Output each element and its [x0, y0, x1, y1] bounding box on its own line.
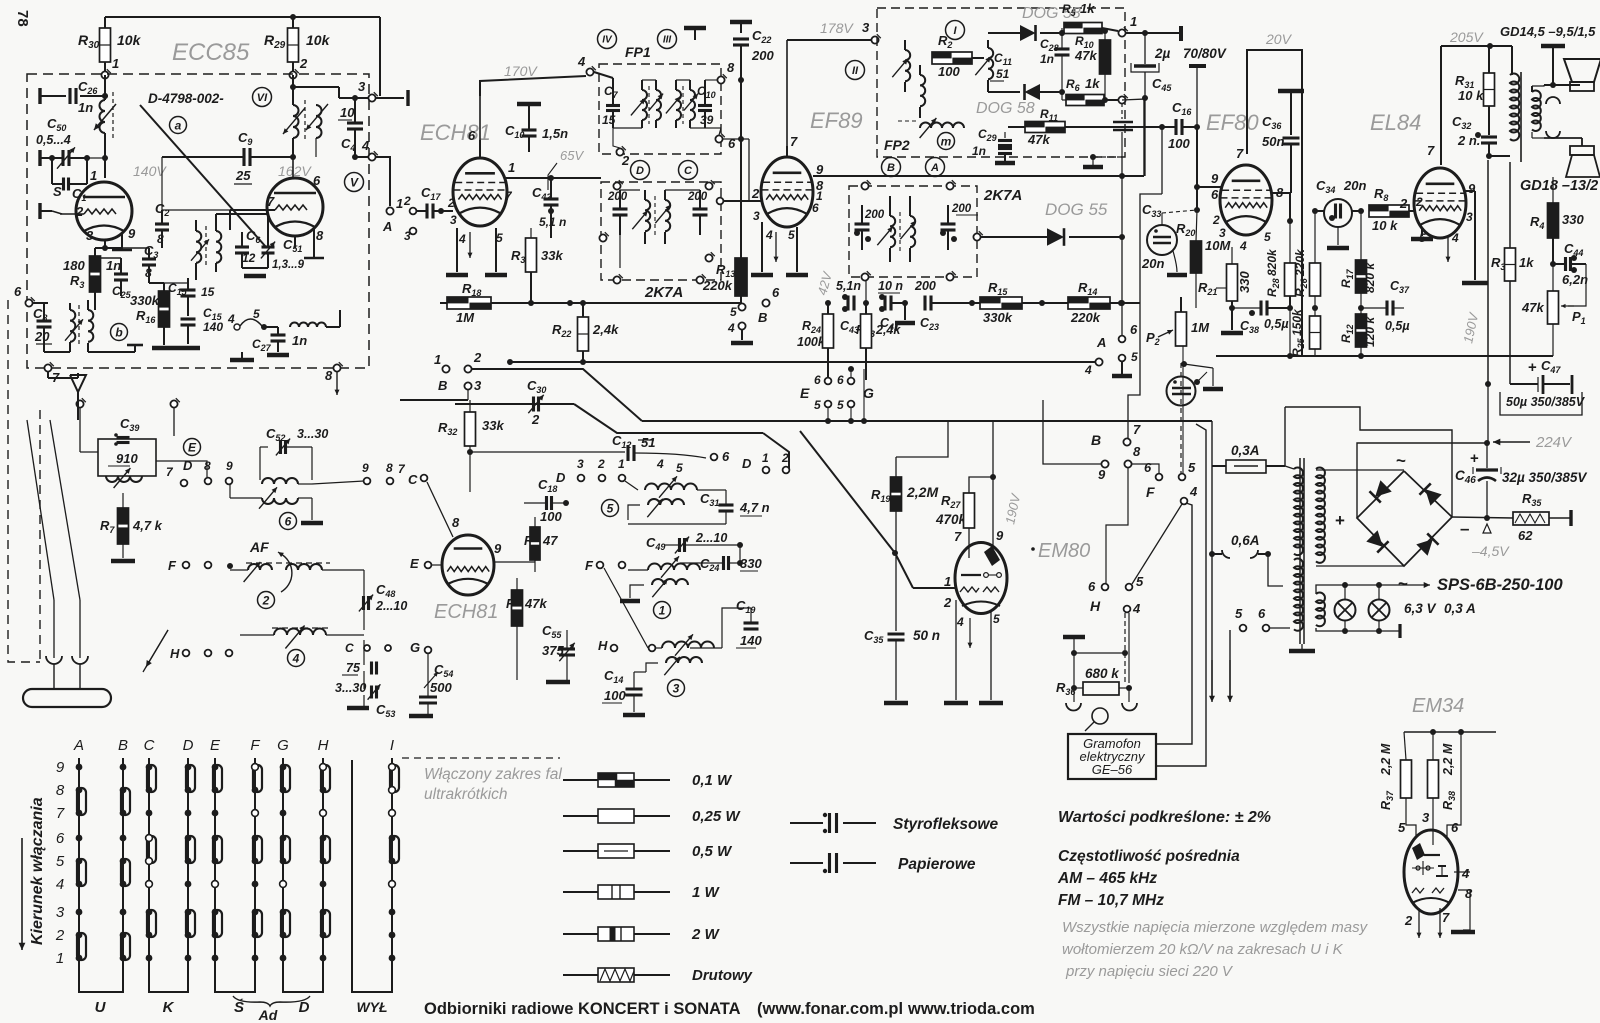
circled IV [598, 30, 617, 49]
box 2K7A I [601, 182, 721, 280]
connector D [283, 985, 323, 1016]
svg-text:Wartości podkreślone: ± 2%: Wartości podkreślone: ± 2% [1058, 809, 1271, 826]
svg-text:III: III [663, 35, 672, 46]
capacitor C36 [1262, 91, 1304, 193]
node 7 box [76, 398, 179, 452]
node C [398, 462, 453, 537]
label DOG58 b [976, 100, 1035, 117]
capacitor C41 [878, 279, 915, 332]
label ECH81 II [434, 601, 498, 623]
resistor R16 [130, 283, 176, 348]
svg-text:U: U [95, 999, 107, 1016]
svg-text:9: 9 [996, 528, 1004, 543]
phono hooks [1066, 703, 1137, 711]
bridge plus wire [1357, 381, 1491, 518]
resistor R7 [100, 493, 163, 561]
svg-text:1: 1 [659, 603, 666, 617]
resistor R18 [440, 281, 510, 325]
svg-text:2: 2 [55, 927, 65, 944]
node 5dash [1179, 363, 1196, 480]
node 4 [355, 138, 378, 161]
label D-4798-002 [148, 91, 224, 106]
capacitor C30 [527, 378, 546, 427]
svg-text:470k: 470k [935, 512, 968, 527]
svg-text:2: 2 [781, 451, 789, 465]
svg-text:B: B [1091, 432, 1101, 448]
svg-text:10k: 10k [306, 32, 331, 48]
svg-text:500: 500 [430, 680, 452, 695]
tube ECH81 I [453, 158, 507, 226]
terminal [684, 28, 706, 40]
wire node1 [1126, 26, 1181, 41]
transformer T1 [191, 214, 221, 280]
svg-text:5: 5 [496, 231, 503, 245]
wire 8 to 6H [1106, 468, 1128, 583]
svg-text:E: E [188, 440, 197, 454]
capacitor C31 [628, 490, 770, 524]
label GD18 [1520, 178, 1598, 194]
resistor R14 [1068, 280, 1140, 325]
svg-text:330k: 330k [983, 310, 1013, 325]
resistor R35 [1513, 491, 1549, 543]
switch column B [118, 737, 130, 985]
svg-text:5: 5 [676, 461, 683, 475]
phono ground [1063, 637, 1128, 656]
svg-text:+: + [1470, 450, 1479, 467]
svg-text:100: 100 [604, 688, 626, 703]
svg-text:8: 8 [325, 368, 333, 383]
corner nodes [861, 180, 982, 303]
svg-text:0,6A: 0,6A [1231, 533, 1260, 548]
svg-text:przy napięciu sieci 220 V: przy napięciu sieci 220 V [1065, 963, 1234, 980]
capacitor C9 [162, 130, 296, 210]
node 5H [1126, 574, 1144, 590]
box 50u [1500, 392, 1582, 415]
svg-text:C: C [144, 737, 155, 754]
svg-text:1: 1 [434, 352, 441, 367]
gramofon box [1068, 734, 1156, 779]
svg-text:www.trioda.com: www.trioda.com [907, 1000, 1035, 1018]
svg-text:2µ: 2µ [1154, 46, 1171, 61]
wire 170V [480, 76, 586, 96]
wire r38 [1447, 732, 1461, 838]
svg-text:3: 3 [56, 904, 65, 921]
svg-text:6: 6 [722, 449, 730, 464]
resistor R5 [1062, 1, 1137, 37]
svg-text:20n: 20n [1141, 256, 1164, 271]
svg-text:6: 6 [812, 201, 819, 215]
resistor R38 [1428, 732, 1458, 845]
svg-text:1n: 1n [78, 100, 93, 115]
capacitor C33 [1141, 202, 1197, 275]
svg-text:70/80V: 70/80V [1183, 46, 1227, 61]
capacitor C25 [95, 258, 132, 300]
svg-text:6: 6 [772, 285, 780, 300]
lamp wires [1340, 582, 1430, 638]
pot P2 [1146, 297, 1210, 473]
switch column A [73, 737, 86, 985]
svg-text:1: 1 [762, 451, 769, 465]
svg-text:2 W: 2 W [691, 926, 721, 943]
contact row E [800, 366, 874, 421]
svg-text:F: F [585, 558, 594, 573]
wire ant [0, 0, 1, 1]
svg-text:120 k: 120 k [1363, 316, 1377, 347]
speaker bottom [1566, 138, 1600, 177]
hook top [1546, 97, 1560, 104]
svg-text:200: 200 [751, 48, 774, 63]
capacitor C4 [338, 95, 363, 160]
svg-text:5: 5 [814, 398, 821, 412]
capacitor C40 [697, 80, 716, 128]
svg-text:2: 2 [262, 593, 270, 607]
svg-text:2,2 M: 2,2 M [1379, 743, 1393, 776]
svg-text:2K7A: 2K7A [983, 187, 1022, 204]
fuse 03A [1212, 443, 1285, 473]
svg-text:F: F [250, 737, 260, 754]
box C39 [80, 416, 207, 488]
svg-text:Wszystkie napięcia mierzone: Wszystkie napięcia mierzone względem mas… [1062, 919, 1369, 936]
diag C [404, 482, 426, 493]
capacitor C3 [142, 243, 158, 283]
legend resistor 0,5 W [563, 843, 733, 860]
bus wire [642, 418, 1212, 424]
nodes 56 [1235, 606, 1290, 631]
speaker terminal top [1541, 46, 1580, 88]
resistor R11 [1008, 107, 1100, 147]
svg-text:910: 910 [116, 451, 138, 466]
svg-text:C: C [684, 165, 693, 177]
resistor R34 [1491, 162, 1534, 384]
svg-text:E: E [410, 556, 419, 571]
node 6 r [1119, 322, 1138, 342]
node 6sw [1144, 460, 1162, 500]
svg-text:V: V [350, 175, 359, 189]
svg-text:2...10: 2...10 [695, 531, 727, 545]
wire grid2 [430, 542, 455, 568]
svg-text:S: S [53, 184, 62, 199]
svg-text:EF89: EF89 [810, 108, 863, 133]
svg-text:4: 4 [56, 876, 64, 893]
svg-text:5: 5 [1264, 230, 1271, 244]
svg-text:H: H [318, 737, 329, 754]
resistor R9 [506, 578, 547, 680]
power transformer primary [1285, 466, 1303, 631]
svg-text:GD18 –13/2: GD18 –13/2 [1520, 178, 1598, 194]
svg-text:0,5µ: 0,5µ [1264, 317, 1289, 331]
dashed G [402, 757, 560, 759]
svg-text:(www.fonar.com.pl: (www.fonar.com.pl [757, 1000, 903, 1018]
svg-text:1k: 1k [1080, 1, 1095, 16]
capacitor C24 [680, 545, 762, 573]
phono contact [1125, 613, 1129, 683]
label 162V [278, 163, 312, 179]
svg-text:3: 3 [86, 228, 94, 243]
capacitor C43 [836, 279, 861, 335]
svg-text:330k: 330k [130, 293, 160, 308]
dashed frame [8, 92, 40, 662]
svg-text:10: 10 [340, 105, 355, 120]
svg-text:10 k: 10 k [1372, 218, 1398, 233]
wire [479, 96, 481, 158]
wire mains [1209, 466, 1283, 702]
node 3 [787, 20, 881, 44]
svg-text:3: 3 [1422, 810, 1430, 825]
connector U [79, 985, 123, 1016]
svg-text:G: G [410, 640, 420, 655]
coil 5 [602, 476, 713, 520]
tap -4.5V [1471, 524, 1510, 559]
label EF80 [1206, 110, 1259, 135]
node row D2 [556, 451, 789, 485]
wire pin1 [506, 175, 601, 181]
svg-text:50µ 350/385V: 50µ 350/385V [1506, 395, 1586, 409]
grid wire [717, 198, 761, 205]
capacitor C38 [1232, 301, 1290, 336]
svg-text:2: 2 [943, 595, 952, 610]
tube EM34 [1404, 830, 1458, 914]
svg-text:6: 6 [814, 373, 821, 387]
svg-text:6: 6 [1144, 460, 1152, 475]
switch column C [144, 737, 156, 985]
svg-text:330: 330 [1562, 212, 1584, 227]
svg-text:1: 1 [1130, 14, 1137, 29]
svg-text:4: 4 [765, 228, 773, 242]
pins EM34 top [1398, 810, 1459, 835]
svg-text:5: 5 [730, 305, 737, 319]
svg-text:5,1n: 5,1n [836, 279, 861, 293]
svg-text:3: 3 [358, 79, 366, 94]
label AF [249, 539, 269, 555]
node 9 [1091, 432, 1109, 482]
circled III [658, 30, 677, 49]
svg-text:20: 20 [34, 329, 50, 344]
svg-text:8: 8 [386, 461, 393, 475]
svg-text:AF: AF [249, 539, 269, 555]
node E [410, 556, 442, 571]
svg-text:ECC85: ECC85 [172, 39, 250, 66]
svg-text:6: 6 [56, 830, 65, 847]
legend papier [790, 853, 976, 873]
pointer line [140, 105, 266, 247]
svg-text:7: 7 [1442, 910, 1450, 925]
wire 9pin [993, 421, 1004, 545]
svg-text:5,1 n: 5,1 n [539, 215, 566, 229]
tube EL84 [1414, 168, 1466, 238]
svg-text:47k: 47k [1027, 132, 1050, 147]
svg-text:6: 6 [728, 136, 736, 151]
node G [410, 640, 431, 655]
connector WYL [352, 760, 392, 1015]
wire [95, 240, 149, 251]
svg-text:5: 5 [1188, 460, 1196, 475]
svg-text:0,5 W: 0,5 W [692, 843, 733, 860]
transformer FP2 out [975, 40, 993, 92]
IF transformer FP1b [666, 80, 698, 128]
svg-text:32µ 350/385V: 32µ 350/385V [1502, 470, 1587, 485]
pins EM80 [943, 574, 1000, 629]
capacitor C28 [1040, 30, 1070, 92]
svg-text:9: 9 [1211, 171, 1219, 186]
svg-text:0,5µ: 0,5µ [1385, 319, 1410, 333]
resistor R13 [702, 240, 747, 303]
pin8 lead [304, 228, 324, 258]
svg-text:200: 200 [864, 209, 885, 221]
box FP2 [877, 8, 1125, 157]
svg-text:5: 5 [1235, 606, 1243, 621]
svg-text:8: 8 [316, 228, 324, 243]
wire em34 top [1404, 729, 1496, 735]
svg-text:EM34: EM34 [1412, 695, 1464, 717]
svg-text:220k: 220k [702, 278, 733, 293]
tube EF80 [1220, 165, 1272, 235]
svg-text:D: D [183, 458, 193, 473]
svg-text:1: 1 [56, 950, 64, 967]
svg-text:EL84: EL84 [1370, 110, 1421, 135]
node 7 [44, 362, 60, 385]
capacitor C44 [1553, 241, 1588, 308]
minus wire out [1452, 510, 1571, 526]
svg-text:2,2 M: 2,2 M [1441, 743, 1455, 776]
screen box ECC85 unit [27, 74, 369, 368]
resistor R21 [1198, 247, 1252, 333]
wire spk [1544, 138, 1582, 146]
svg-text:3: 3 [753, 209, 760, 223]
wire [619, 235, 621, 268]
svg-text:2: 2 [1399, 196, 1408, 211]
svg-text:wołtomierzem 20 kΩ/V na zak: wołtomierzem 20 kΩ/V na zakresach U i K [1062, 941, 1344, 958]
label 6.3V [1404, 601, 1476, 616]
svg-text:8: 8 [727, 60, 735, 75]
svg-text:9: 9 [56, 759, 65, 776]
svg-text:A: A [382, 219, 392, 234]
svg-text:47k: 47k [524, 596, 547, 611]
diag F-H [604, 568, 648, 648]
legend resistor 0,1 W [563, 772, 733, 789]
svg-text:9: 9 [128, 226, 136, 241]
circled V [345, 173, 364, 192]
wire [0, 0, 1, 1]
svg-text:3...30: 3...30 [335, 681, 366, 695]
label FP2 [884, 137, 910, 153]
power secondary heater [1316, 585, 1345, 631]
svg-text:1M: 1M [1191, 320, 1210, 335]
terminal 2 [1189, 66, 1206, 127]
resistor R30 [78, 17, 142, 75]
capacitor C19 [690, 598, 762, 648]
node 4 mid [727, 321, 753, 343]
svg-text:GD14,5 –9,5/1,5: GD14,5 –9,5/1,5 [1500, 24, 1596, 39]
svg-text:D: D [183, 737, 194, 754]
svg-text:330: 330 [740, 556, 762, 571]
em34 wires [1417, 872, 1476, 938]
capacitor C12 [470, 433, 730, 464]
wire [0, 0, 1, 1]
circled cap lower [1167, 364, 1224, 406]
transformer [877, 196, 915, 262]
wire 20V [1247, 50, 1302, 356]
svg-text:2: 2 [473, 350, 482, 365]
svg-text:2: 2 [299, 56, 308, 71]
resistor R10 [1074, 28, 1111, 100]
svg-text:Drutowy: Drutowy [692, 967, 753, 984]
node 4 fp1 [577, 54, 705, 128]
diode DOG58 b [988, 84, 1065, 100]
svg-text:Częstotliwość pośrednia: Częstotliwość pośrednia [1058, 848, 1240, 865]
wire [786, 40, 788, 158]
svg-text:51: 51 [641, 435, 655, 450]
svg-text:4: 4 [227, 312, 235, 326]
svg-text:G: G [863, 385, 874, 401]
capacitor C52 [260, 426, 328, 480]
switch column I [389, 737, 399, 985]
svg-text:47: 47 [542, 533, 558, 548]
label ECC85 [172, 39, 250, 66]
svg-text:a: a [175, 118, 182, 132]
svg-text:4: 4 [656, 457, 664, 471]
label wlaczony [424, 766, 562, 803]
node 4b [227, 312, 240, 330]
label EF89 [810, 108, 863, 133]
phono plug [1085, 708, 1108, 731]
svg-text:9: 9 [494, 541, 502, 556]
svg-text:–: – [1460, 519, 1469, 538]
resistor R8 [1369, 186, 1423, 233]
label 65V [548, 148, 584, 190]
wire [149, 282, 188, 284]
circled VI [253, 88, 272, 107]
resistor R6 [1062, 76, 1128, 106]
node A4 [1084, 335, 1106, 377]
label 42V [814, 269, 835, 297]
resistor R12 [1339, 314, 1377, 356]
IF transformer [632, 190, 670, 244]
svg-text:EF80: EF80 [1206, 110, 1259, 135]
circled C [679, 161, 698, 180]
svg-text:ultrakrótkich: ultrakrótkich [424, 786, 508, 803]
svg-text:200: 200 [687, 191, 708, 203]
tube grounds [446, 228, 507, 275]
switch column D [183, 737, 195, 985]
wire nodeD [184, 487, 205, 560]
svg-text:2: 2 [621, 153, 630, 168]
svg-text:7: 7 [56, 805, 65, 822]
resistor R19 [871, 421, 948, 631]
box 2K7A II [849, 186, 977, 277]
node 6H [1088, 579, 1108, 614]
svg-text:~: ~ [1396, 451, 1406, 470]
pins EM34 [1404, 866, 1473, 928]
svg-text:H: H [1090, 598, 1101, 614]
node 1 [434, 352, 450, 393]
svg-text:B: B [758, 310, 767, 325]
svg-text:D: D [556, 470, 566, 485]
svg-text:WYŁ: WYŁ [356, 999, 387, 1015]
svg-text:G: G [277, 737, 289, 754]
capacitor C32 [1452, 114, 1510, 159]
svg-text:5: 5 [1131, 350, 1138, 364]
tube EF89 [761, 157, 813, 227]
svg-text:3: 3 [404, 229, 411, 243]
svg-text:1: 1 [508, 160, 515, 175]
label ECH81 [420, 120, 491, 145]
capacitor C15b [176, 306, 223, 348]
pins ECH81 II [434, 515, 502, 560]
resistor R28 [1265, 221, 1296, 356]
svg-text:33k: 33k [541, 248, 563, 263]
svg-text:FP1: FP1 [625, 44, 651, 60]
power secondary HV [1316, 468, 1404, 566]
